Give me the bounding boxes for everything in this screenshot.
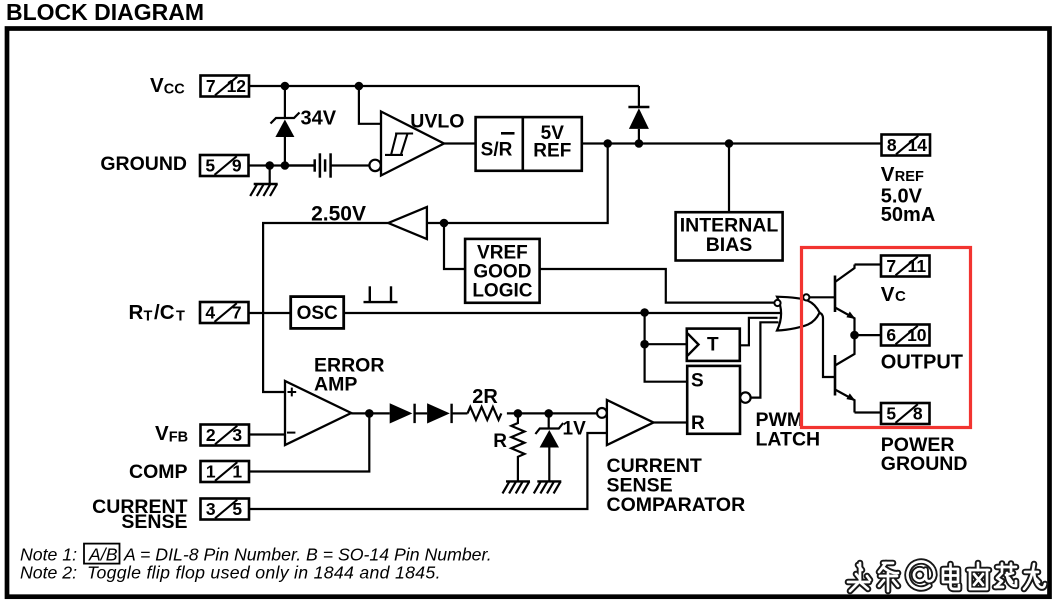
svg-text:A = DIL-8 Pin Number. B = SO-1: A = DIL-8 Pin Number. B = SO-14 Pin Numb… (123, 544, 492, 564)
svg-text:Note 2:: Note 2: (20, 563, 77, 583)
zener diode 34V (271, 86, 300, 166)
pin box OUTPUT 6/10 (881, 325, 930, 346)
svg-text:COMP: COMP (129, 461, 188, 483)
wire to VREF GOOD LOGIC (444, 223, 465, 269)
svg-text:50mA: 50mA (881, 204, 935, 226)
battery symbol (285, 153, 370, 177)
svg-text:9: 9 (232, 156, 242, 176)
svg-text:3: 3 (232, 425, 242, 445)
pin box CURRENT SENSE 3/5 (201, 499, 250, 520)
wire 5V REF out to pin 8/14 (582, 142, 881, 144)
wire gate top out to Q1 base (809, 296, 835, 298)
red highlight box (802, 248, 971, 428)
svg-text:2: 2 (206, 425, 216, 445)
svg-text:5: 5 (232, 499, 242, 519)
op-amp UVLO comparator (369, 112, 444, 176)
ground symbol (Vcc input) (250, 184, 278, 196)
resistor R (511, 413, 524, 481)
svg-text:14: 14 (908, 135, 928, 155)
op-amp ERROR AMP (285, 381, 351, 445)
junction vref-bias (725, 139, 734, 148)
label Vc (881, 283, 906, 306)
block OSC (291, 297, 344, 329)
latch PWM S/R (687, 366, 740, 434)
label RT/CT (129, 301, 186, 325)
note 1 (20, 544, 492, 565)
svg-text:10: 10 (907, 325, 927, 345)
junction gnd-sym (265, 161, 274, 170)
svg-text:V: V (881, 283, 895, 306)
label Vcc (150, 74, 185, 98)
junction osc-T (640, 340, 649, 349)
pin box Vc 7/11 (881, 256, 930, 277)
svg-text:GROUND: GROUND (100, 153, 187, 175)
svg-text:V: V (155, 422, 169, 445)
svg-text:/C: /C (154, 301, 175, 324)
wire T out to gate (740, 318, 778, 346)
svg-text:SENSE: SENSE (607, 475, 673, 497)
svg-text:V: V (150, 74, 164, 97)
svg-text:R: R (691, 413, 705, 434)
svg-text:1: 1 (206, 462, 216, 482)
wire latch out to gate (751, 322, 779, 397)
svg-text:8: 8 (887, 135, 897, 155)
svg-text:CC: CC (164, 82, 185, 98)
diode D1 (390, 403, 415, 423)
svg-text:C: C (895, 288, 906, 305)
junction Vcc-UVLO (355, 82, 364, 91)
svg-text:T: T (176, 309, 185, 325)
op-amp CURRENT SENSE COMPARATOR (597, 400, 654, 445)
svg-text:T: T (144, 309, 153, 325)
svg-text:BIAS: BIAS (706, 234, 753, 256)
watermark 头条 @电卤药丸 (848, 562, 1045, 591)
pin box COMP 1/1 (201, 461, 250, 482)
wire Q2 emitter to 5/8 (855, 411, 882, 413)
block S/R and 5V REF (476, 117, 582, 171)
svg-text:Toggle flip flop used only in: Toggle flip flop used only in 1844 and 1… (87, 563, 441, 583)
svg-text:12: 12 (227, 76, 247, 96)
svg-text:FB: FB (169, 430, 188, 446)
svg-text:OSC: OSC (297, 303, 338, 324)
wire ground rail (249, 164, 315, 166)
svg-text:LATCH: LATCH (756, 428, 821, 450)
junction buffer-vrefgood (440, 219, 449, 228)
block INTERNAL BIAS (676, 212, 783, 260)
svg-text:R: R (129, 301, 144, 324)
wire OSC out to gate (344, 312, 780, 314)
junction comp feedback (365, 409, 374, 418)
svg-text:V: V (881, 163, 895, 186)
label VREF (881, 163, 924, 186)
svg-text:7: 7 (206, 76, 216, 96)
wire error amp out (351, 412, 390, 414)
svg-text:A/B: A/B (88, 544, 118, 564)
wire COMP feedback (250, 413, 370, 471)
diode to Vcc rail (628, 86, 649, 144)
svg-text:LOGIC: LOGIC (472, 281, 532, 302)
svg-text:GROUND: GROUND (881, 453, 968, 475)
ground symbol (1V zener) (534, 481, 562, 493)
junction output node (850, 331, 859, 340)
buffer amp 2.50V (388, 207, 427, 239)
wire VFB to error amp minus (250, 433, 286, 435)
svg-text:11: 11 (908, 256, 927, 276)
svg-text:4: 4 (205, 303, 215, 323)
svg-text:6: 6 (886, 325, 896, 345)
diode D2 (427, 403, 452, 423)
transistor Q1 (upper) (835, 265, 856, 336)
svg-text:1: 1 (232, 462, 242, 482)
svg-text:REF: REF (533, 141, 571, 162)
clock pulse symbol (364, 286, 398, 302)
wire VREF GOOD LOGIC to gate (540, 269, 775, 303)
svg-text:T: T (707, 334, 719, 355)
wire 2R to comparator (507, 412, 597, 414)
wire CURRENT SENSE pin to comparator (249, 433, 607, 509)
wire osc down to T and S (645, 313, 687, 382)
note 2 (20, 563, 441, 583)
svg-text:3: 3 (206, 499, 216, 519)
junction gnd-zener (281, 161, 290, 170)
resistor 2R (468, 407, 502, 420)
ground symbol (R) (503, 481, 531, 493)
wire D1-D2 (415, 412, 428, 414)
svg-text:Note 1:: Note 1: (20, 544, 77, 564)
pin box POWER GROUND 5/8 (881, 403, 930, 424)
wire Vcc to UVLO plus input (359, 86, 381, 124)
pin box Vcc 7/12 (201, 76, 250, 97)
junction osc-gate (640, 308, 649, 317)
svg-text:SENSE: SENSE (121, 511, 187, 533)
svg-text:BLOCK DIAGRAM: BLOCK DIAGRAM (6, 0, 204, 25)
label VFB (155, 422, 188, 446)
pin box VFB 2/3 (201, 425, 250, 446)
wire to T clock (645, 343, 687, 345)
svg-text:GOOD: GOOD (473, 262, 531, 283)
junction zener 1V (544, 409, 553, 418)
svg-text:34V: 34V (301, 107, 337, 129)
svg-text:S: S (691, 370, 704, 391)
transistor Q2 (lower) (835, 335, 856, 412)
wire to internal bias (728, 144, 730, 213)
svg-text:5: 5 (205, 156, 215, 176)
svg-text:R: R (493, 431, 507, 452)
wire UVLO out (444, 142, 476, 144)
svg-text:COMPARATOR: COMPARATOR (607, 494, 746, 516)
wire gnd stub (269, 166, 271, 185)
wire RT/CT to OSC (249, 312, 291, 314)
junction vref-diode (635, 139, 644, 148)
junction R divider (514, 409, 523, 418)
svg-text:8: 8 (913, 404, 923, 424)
svg-text:VREF: VREF (477, 243, 528, 264)
wire D2 to 2R (452, 412, 468, 414)
junction vref-buffer (603, 139, 612, 148)
svg-text:AMP: AMP (314, 373, 357, 395)
wire gate out to Q2 base (820, 313, 836, 377)
pin box VREF 8/14 (882, 135, 931, 156)
pin box GROUND 5/9 (200, 155, 249, 176)
block VREF GOOD LOGIC (465, 239, 539, 303)
wire output node to 6/10 (855, 334, 882, 336)
svg-text:REF: REF (895, 169, 924, 185)
flip-flop T (687, 329, 740, 361)
svg-text:OUTPUT: OUTPUT (881, 351, 963, 373)
wire buffer out to error amp plus (263, 223, 388, 392)
svg-text:7: 7 (232, 303, 242, 323)
svg-text:1V: 1V (563, 418, 587, 439)
wire Q1 collector to 7/11 (855, 263, 882, 265)
pin box RT/CT 4/7 (200, 302, 249, 323)
gate NOR (output logic) (774, 294, 819, 330)
wire vref to buffer input (427, 144, 608, 224)
svg-text:5: 5 (886, 404, 896, 424)
wire Vcc rail (249, 85, 639, 87)
latch output bubble (740, 392, 750, 402)
zener diode 1V (535, 413, 563, 481)
wire comparator out to latch R (654, 421, 688, 423)
svg-text:UVLO: UVLO (410, 110, 464, 132)
junction Vcc-zener (281, 82, 290, 91)
svg-text:S/R: S/R (481, 140, 513, 161)
svg-text:2R: 2R (472, 386, 498, 408)
svg-text:7: 7 (886, 256, 896, 276)
